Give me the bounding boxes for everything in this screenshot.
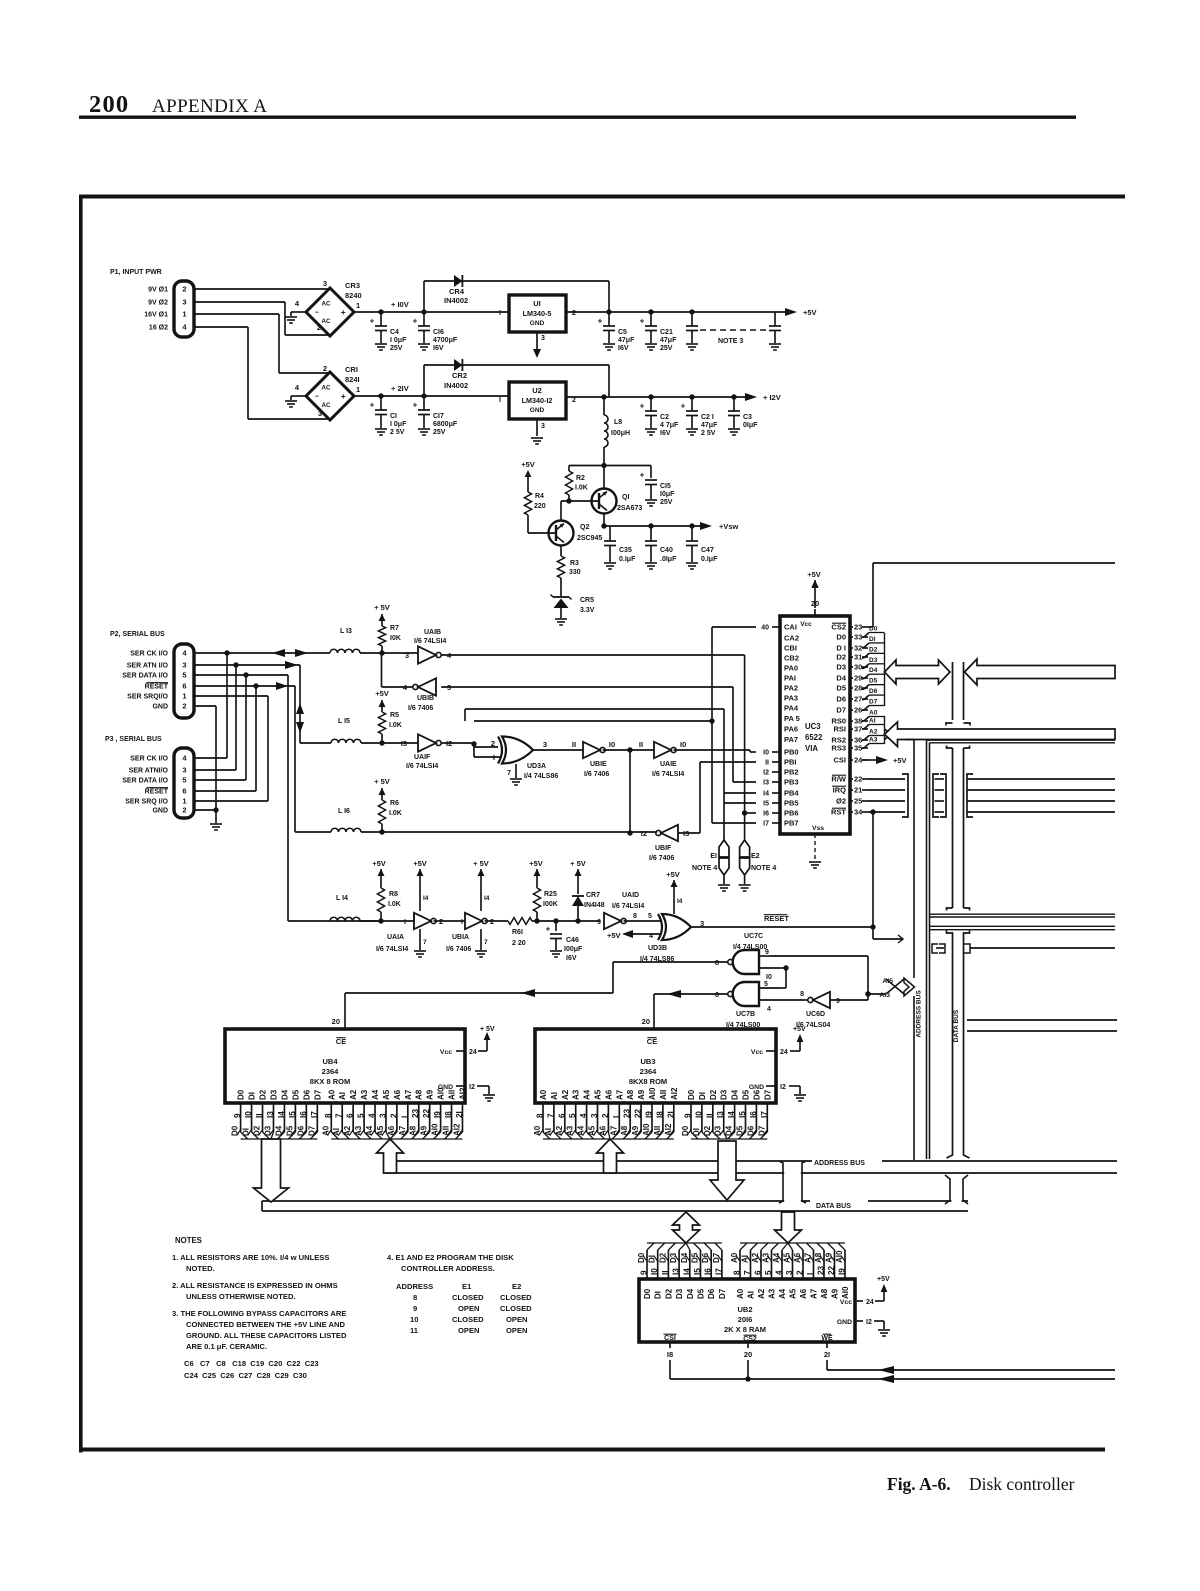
svg-text:IN4002: IN4002 (444, 296, 468, 305)
svg-text:Ø2: Ø2 (836, 797, 846, 806)
svg-text:NOTED.: NOTED. (186, 1264, 215, 1273)
svg-text:7: 7 (507, 770, 511, 777)
svg-text:AI2: AI2 (458, 1087, 467, 1100)
svg-text:29: 29 (854, 674, 862, 683)
svg-text:I4: I4 (677, 898, 683, 905)
svg-text:CLOSED: CLOSED (452, 1293, 484, 1302)
svg-text:UAIE: UAIE (660, 761, 677, 768)
svg-text:D2: D2 (869, 646, 878, 653)
svg-text:I4: I4 (277, 1111, 286, 1118)
svg-text:OPEN: OPEN (506, 1315, 528, 1324)
svg-text:+: + (341, 307, 346, 317)
svg-text:+5V: +5V (413, 859, 427, 868)
svg-text:16V Ø1: 16V Ø1 (144, 312, 168, 319)
svg-text:D7: D7 (869, 699, 878, 706)
svg-text:PA6: PA6 (784, 725, 798, 734)
svg-text:+5V: +5V (529, 859, 543, 868)
svg-text:I6V: I6V (433, 345, 444, 352)
svg-text:A0: A0 (869, 710, 878, 717)
svg-text:UNLESS OTHERWISE NOTED.: UNLESS OTHERWISE NOTED. (186, 1292, 296, 1301)
svg-text:20: 20 (332, 1017, 340, 1026)
svg-text:QI: QI (622, 494, 629, 501)
svg-text:1: 1 (356, 385, 360, 394)
svg-text:D2: D2 (709, 1089, 718, 1100)
svg-text:21: 21 (854, 786, 862, 795)
svg-text:R25: R25 (544, 891, 557, 898)
svg-text:23: 23 (854, 623, 862, 632)
svg-text:I4: I4 (423, 895, 429, 902)
svg-text:6522: 6522 (805, 733, 823, 742)
svg-text:UBIF: UBIF (655, 845, 672, 852)
svg-text:7: 7 (335, 1113, 344, 1118)
svg-text:OPEN: OPEN (458, 1304, 480, 1313)
svg-text:I2: I2 (641, 829, 647, 838)
svg-text:9: 9 (640, 1270, 649, 1275)
svg-text:25V: 25V (660, 345, 673, 352)
svg-text:I5: I5 (738, 1111, 747, 1118)
svg-text:CE: CE (647, 1037, 657, 1046)
svg-text:SER ATN I/O: SER ATN I/O (127, 663, 169, 670)
svg-text:I/4 74LS86: I/4 74LS86 (524, 773, 558, 780)
svg-text:7: 7 (546, 1113, 555, 1118)
svg-text:A2: A2 (757, 1288, 766, 1299)
svg-text:8: 8 (413, 1293, 417, 1302)
svg-text:0IμF: 0IμF (743, 422, 758, 429)
svg-text:SER CK I/O: SER CK I/O (130, 756, 168, 763)
svg-text:I: I (400, 1116, 409, 1118)
svg-text:DI: DI (248, 1092, 257, 1100)
svg-text:−: − (315, 310, 319, 317)
svg-text:27: 27 (854, 695, 862, 704)
svg-text:L I5: L I5 (338, 718, 350, 725)
svg-text:D4: D4 (869, 667, 878, 674)
svg-text:34: 34 (854, 808, 863, 817)
svg-text:Vcc: Vcc (840, 1299, 852, 1306)
svg-text:3. THE FOLLOWING BYPASS CAPAC: 3. THE FOLLOWING BYPASS CAPACITORS ARE (172, 1309, 346, 1318)
svg-text:2: 2 (389, 1113, 398, 1118)
svg-text:+: + (681, 402, 686, 411)
svg-text:AI: AI (869, 718, 876, 725)
svg-text:+: + (640, 471, 645, 480)
svg-text:D6: D6 (869, 688, 878, 695)
svg-text:UBIB: UBIB (417, 695, 434, 702)
svg-text:D0: D0 (836, 633, 846, 642)
svg-text:ADDRESS: ADDRESS (396, 1282, 433, 1291)
svg-text:UB3: UB3 (640, 1057, 655, 1066)
svg-text:I8: I8 (444, 1111, 453, 1118)
svg-text:+5V: +5V (793, 1026, 806, 1033)
svg-text:I9: I9 (433, 1111, 442, 1118)
svg-text:CI6: CI6 (433, 329, 444, 336)
svg-text:I6: I6 (299, 1111, 308, 1118)
svg-text:+: + (413, 317, 418, 326)
svg-text:DI: DI (698, 1092, 707, 1100)
svg-text:22: 22 (827, 1265, 836, 1275)
svg-text:4: 4 (767, 1006, 771, 1013)
svg-text:35: 35 (854, 744, 862, 753)
svg-text:SER SRQ I/O: SER SRQ I/O (125, 799, 168, 806)
svg-text:D3: D3 (269, 1089, 278, 1100)
svg-text:IN4I48: IN4I48 (584, 902, 605, 909)
svg-text:GROUND. ALL THESE CAPACITORS: GROUND. ALL THESE CAPACITORS LISTED (186, 1331, 347, 1340)
svg-text:CSI: CSI (664, 1335, 676, 1342)
svg-text:CR7: CR7 (586, 892, 600, 899)
svg-text:9: 9 (765, 949, 769, 956)
svg-text:D7: D7 (763, 1089, 772, 1100)
svg-text:D6: D6 (302, 1089, 311, 1100)
svg-text:D4: D4 (280, 1089, 289, 1100)
svg-text:I00K: I00K (543, 901, 558, 908)
svg-text:+: + (413, 401, 418, 410)
svg-text:PB3: PB3 (784, 778, 799, 787)
svg-text:NOTE 3: NOTE 3 (718, 338, 743, 345)
svg-text:AC: AC (322, 300, 331, 307)
svg-text:GND: GND (530, 320, 545, 327)
svg-text:UD3B: UD3B (648, 945, 667, 952)
svg-text:11: 11 (410, 1326, 419, 1335)
svg-text:+ 5V: + 5V (374, 777, 390, 786)
svg-text:I3: I3 (763, 780, 769, 787)
svg-text:+ I2V: + I2V (763, 393, 781, 402)
svg-text:A8: A8 (415, 1089, 424, 1100)
svg-text:4700μF: 4700μF (433, 337, 458, 344)
svg-text:I6: I6 (749, 1111, 758, 1118)
svg-text:D0: D0 (237, 1089, 246, 1100)
svg-text:+: + (640, 317, 645, 326)
svg-text:I6V: I6V (618, 345, 629, 352)
svg-text:GND: GND (152, 704, 168, 711)
svg-text:RESET: RESET (145, 789, 169, 796)
svg-text:I/6 74LSI4: I/6 74LSI4 (376, 946, 408, 953)
svg-text:2 20: 2 20 (512, 940, 526, 947)
svg-text:PB5: PB5 (784, 799, 799, 808)
svg-text:9: 9 (597, 919, 601, 926)
svg-text:33: 33 (854, 633, 862, 642)
svg-text:9: 9 (413, 1304, 417, 1313)
svg-text:AI: AI (741, 1255, 750, 1263)
svg-text:I: I (404, 919, 406, 926)
svg-text:+5V: +5V (666, 870, 680, 879)
svg-text:4: 4 (649, 933, 653, 940)
svg-text:25V: 25V (433, 429, 446, 436)
svg-text:II: II (765, 760, 769, 767)
svg-text:I00μH: I00μH (611, 430, 630, 437)
svg-text:SER SRQI/O: SER SRQI/O (127, 694, 168, 701)
svg-text:I/6 74LSI4: I/6 74LSI4 (612, 903, 644, 910)
svg-text:I0: I0 (680, 740, 686, 749)
svg-text:2: 2 (572, 397, 576, 404)
svg-text:Vcc: Vcc (800, 621, 812, 628)
svg-text:R5: R5 (390, 712, 399, 719)
svg-text:I4: I4 (484, 895, 490, 902)
svg-text:A3: A3 (572, 1089, 581, 1100)
svg-text:9: 9 (684, 1113, 693, 1118)
svg-text:I2: I2 (763, 770, 769, 777)
svg-text:CBI: CBI (784, 644, 797, 653)
svg-text:24: 24 (866, 1299, 874, 1306)
svg-text:RSI: RSI (833, 725, 846, 734)
svg-text:D0: D0 (681, 1125, 690, 1136)
svg-text:2SA673: 2SA673 (617, 505, 642, 512)
svg-text:824I: 824I (345, 375, 360, 384)
svg-text:I5: I5 (288, 1111, 297, 1118)
svg-text:5: 5 (357, 1113, 366, 1118)
svg-text:20: 20 (744, 1350, 752, 1359)
svg-text:D2: D2 (664, 1288, 673, 1299)
svg-text:6: 6 (754, 1270, 763, 1275)
svg-text:A7: A7 (404, 1089, 413, 1100)
svg-text:24: 24 (780, 1049, 788, 1056)
svg-text:I/6 74LSI4: I/6 74LSI4 (406, 763, 438, 770)
svg-text:C21: C21 (660, 329, 673, 336)
svg-text:20I6: 20I6 (738, 1315, 753, 1324)
svg-text:PA 5: PA 5 (784, 714, 800, 723)
svg-text:24: 24 (854, 756, 863, 765)
svg-text:E2: E2 (512, 1282, 521, 1291)
svg-text:II: II (639, 740, 643, 749)
svg-text:A3: A3 (768, 1288, 777, 1299)
svg-text:UI: UI (533, 299, 541, 308)
svg-text:RESET: RESET (764, 914, 789, 923)
svg-text:I/6 7406: I/6 7406 (446, 946, 471, 953)
svg-text:Q2: Q2 (580, 524, 589, 531)
svg-text:I2: I2 (469, 1084, 475, 1091)
svg-text:20: 20 (811, 599, 819, 608)
svg-text:4: 4 (775, 1270, 784, 1275)
svg-text:28: 28 (854, 684, 862, 693)
svg-text:+ 5V: + 5V (480, 1026, 495, 1033)
svg-text:+5V: +5V (893, 756, 907, 765)
svg-text:PA3: PA3 (784, 694, 798, 703)
svg-text:C2: C2 (660, 414, 669, 421)
svg-text:1. ALL RESISTORS ARE 10%. I/4: 1. ALL RESISTORS ARE 10%. I/4 w UNLESS (172, 1253, 329, 1262)
svg-text:C24 C25 C26 C27 C28 C29: C24 C25 C26 C27 C28 C29 C30 (184, 1371, 307, 1380)
svg-text:D6: D6 (836, 695, 846, 704)
svg-text:8KX8 ROM: 8KX8 ROM (629, 1077, 667, 1086)
svg-text:A3: A3 (360, 1089, 369, 1100)
svg-text:C47: C47 (701, 547, 714, 554)
svg-text:R7: R7 (390, 625, 399, 632)
svg-text:A0: A0 (327, 1089, 336, 1100)
svg-text:A8: A8 (820, 1288, 829, 1299)
svg-text:23: 23 (623, 1108, 632, 1118)
svg-text:3: 3 (590, 1113, 599, 1118)
svg-text:DATA BUS: DATA BUS (816, 1203, 851, 1210)
svg-text:D7: D7 (718, 1288, 727, 1299)
svg-text:UC6D: UC6D (806, 1011, 825, 1018)
svg-text:2364: 2364 (322, 1067, 340, 1076)
svg-text:2I: 2I (666, 1111, 675, 1118)
svg-text:I: I (806, 1273, 815, 1275)
svg-text:Fig. A-6.: Fig. A-6. (887, 1474, 951, 1494)
svg-text:30: 30 (854, 663, 862, 672)
svg-text:AI2: AI2 (670, 1087, 679, 1100)
svg-text:PA0: PA0 (784, 664, 798, 673)
svg-text:PB6: PB6 (784, 809, 799, 818)
svg-text:0.IμF: 0.IμF (619, 556, 636, 563)
svg-text:AI3: AI3 (879, 992, 890, 999)
svg-text:D6: D6 (752, 1089, 761, 1100)
svg-text:8240: 8240 (345, 291, 362, 300)
svg-text:26: 26 (854, 706, 862, 715)
svg-text:47μF: 47μF (660, 337, 677, 344)
svg-text:3: 3 (785, 1270, 794, 1275)
svg-text:U2: U2 (532, 386, 542, 395)
svg-text:GND: GND (152, 808, 168, 815)
svg-text:C2 I: C2 I (701, 414, 714, 421)
svg-text:9: 9 (836, 998, 840, 1005)
svg-text:330: 330 (569, 569, 581, 576)
svg-text:AI: AI (747, 1291, 756, 1299)
svg-text:D0: D0 (643, 1288, 652, 1299)
svg-text:UAIF: UAIF (414, 754, 431, 761)
svg-text:25: 25 (854, 797, 862, 806)
svg-text:IN4002: IN4002 (444, 381, 468, 390)
svg-text:6: 6 (182, 682, 186, 691)
svg-text:20: 20 (642, 1017, 650, 1026)
svg-text:23: 23 (817, 1265, 826, 1275)
svg-text:16 Ø2: 16 Ø2 (149, 325, 168, 332)
svg-text:I0: I0 (766, 974, 772, 981)
svg-text:CI5: CI5 (660, 483, 671, 490)
svg-text:SER DATA I/O: SER DATA I/O (122, 673, 168, 680)
svg-text:AI0: AI0 (648, 1087, 657, 1100)
svg-text:AII: AII (659, 1090, 668, 1100)
svg-text:AI: AI (550, 1092, 559, 1100)
svg-text:D3: D3 (720, 1089, 729, 1100)
svg-text:+5V: +5V (807, 570, 821, 579)
svg-text:23: 23 (411, 1108, 420, 1118)
svg-text:UAIB: UAIB (424, 629, 441, 636)
svg-text:I3: I3 (716, 1111, 725, 1118)
svg-text:A2: A2 (349, 1089, 358, 1100)
svg-text:I4: I4 (682, 1268, 691, 1275)
svg-text:24: 24 (469, 1049, 477, 1056)
svg-text:LM340-I2: LM340-I2 (522, 396, 553, 405)
svg-text:2: 2 (182, 285, 186, 294)
svg-text:I8: I8 (667, 1350, 673, 1359)
svg-text:CONTROLLER ADDRESS.: CONTROLLER ADDRESS. (401, 1264, 495, 1273)
svg-text:+Vsw: +Vsw (719, 522, 739, 531)
svg-text:A4: A4 (371, 1089, 380, 1100)
svg-text:2364: 2364 (640, 1067, 658, 1076)
svg-text:R2: R2 (576, 475, 585, 482)
svg-text:C5: C5 (618, 329, 627, 336)
svg-text:8: 8 (536, 1113, 545, 1118)
svg-text:2SC945: 2SC945 (577, 535, 602, 542)
svg-text:PA7: PA7 (784, 735, 798, 744)
svg-text:UBIE: UBIE (590, 761, 607, 768)
svg-text:C35: C35 (619, 547, 632, 554)
svg-text:AI0: AI0 (437, 1087, 446, 1100)
svg-text:D5: D5 (869, 678, 878, 685)
svg-text:I/6 7406: I/6 7406 (649, 855, 674, 862)
svg-text:+ 5V: + 5V (374, 603, 390, 612)
svg-text:.0IμF: .0IμF (660, 556, 677, 563)
svg-text:D3: D3 (836, 663, 846, 672)
svg-text:2: 2 (572, 310, 576, 317)
svg-text:2 5V: 2 5V (701, 430, 716, 437)
svg-text:3: 3 (405, 651, 409, 660)
svg-text:II: II (255, 1113, 264, 1118)
svg-text:L I4: L I4 (336, 895, 348, 902)
svg-text:I: I (499, 397, 501, 404)
svg-text:A8: A8 (626, 1089, 635, 1100)
svg-text:5: 5 (764, 981, 768, 988)
svg-text:8: 8 (733, 1270, 742, 1275)
svg-text:8: 8 (324, 1113, 333, 1118)
svg-text:1: 1 (182, 797, 186, 806)
svg-text:A4: A4 (583, 1089, 592, 1100)
svg-text:R8: R8 (389, 891, 398, 898)
svg-text:10: 10 (410, 1315, 418, 1324)
svg-text:CB2: CB2 (784, 654, 799, 663)
svg-text:CLOSED: CLOSED (500, 1293, 532, 1302)
svg-text:4 7μF: 4 7μF (660, 422, 679, 429)
svg-text:WE: WE (821, 1335, 833, 1342)
svg-text:UC3: UC3 (805, 722, 821, 731)
svg-text:I: I (499, 310, 501, 317)
svg-text:RST: RST (831, 808, 846, 817)
svg-text:UC7B: UC7B (736, 1011, 755, 1018)
svg-text:I/6 7406: I/6 7406 (408, 705, 433, 712)
svg-text:UAIA: UAIA (387, 934, 404, 941)
svg-text:47μF: 47μF (701, 422, 718, 429)
svg-text:22: 22 (854, 775, 862, 784)
svg-text:EI: EI (710, 853, 717, 860)
svg-text:+5V: +5V (375, 689, 389, 698)
svg-text:PB0: PB0 (784, 748, 799, 757)
svg-text:I7: I7 (760, 1111, 769, 1118)
svg-text:D0: D0 (231, 1125, 240, 1136)
svg-text:A5: A5 (594, 1089, 603, 1100)
svg-text:CR3: CR3 (345, 281, 360, 290)
svg-text:I8: I8 (655, 1111, 664, 1118)
svg-text:R3: R3 (570, 560, 579, 567)
svg-text:0.IμF: 0.IμF (701, 556, 718, 563)
svg-text:4. E1 AND E2 PROGRAM THE DISK: 4. E1 AND E2 PROGRAM THE DISK (387, 1253, 514, 1262)
svg-text:D5: D5 (697, 1288, 706, 1299)
svg-text:2I: 2I (824, 1350, 830, 1359)
svg-text:A9: A9 (831, 1288, 840, 1299)
svg-text:+5V: +5V (803, 308, 817, 317)
svg-text:+5V: +5V (877, 1276, 890, 1283)
svg-text:C46: C46 (566, 937, 579, 944)
svg-text:I.0K: I.0K (389, 722, 402, 729)
svg-text:CLOSED: CLOSED (452, 1315, 484, 1324)
svg-text:+: + (341, 391, 346, 401)
svg-text:D2: D2 (259, 1089, 268, 1100)
svg-text:8KX 8 ROM: 8KX 8 ROM (310, 1077, 350, 1086)
svg-text:A6: A6 (393, 1089, 402, 1100)
svg-text:UAID: UAID (622, 892, 639, 899)
svg-text:R6: R6 (390, 800, 399, 807)
svg-text:L I3: L I3 (340, 628, 352, 635)
svg-text:1: 1 (182, 692, 186, 701)
svg-text:I0: I0 (763, 750, 769, 757)
svg-text:+: + (546, 925, 551, 934)
svg-text:A2: A2 (561, 1089, 570, 1100)
svg-text:D4: D4 (836, 674, 846, 683)
svg-text:L I6: L I6 (338, 808, 350, 815)
svg-text:+: + (598, 317, 603, 326)
svg-text:I6: I6 (763, 811, 769, 818)
svg-text:APPENDIX A: APPENDIX A (152, 96, 267, 117)
svg-text:D I: D I (836, 644, 846, 653)
svg-text:200: 200 (89, 91, 129, 118)
svg-text:PBI: PBI (784, 758, 797, 767)
svg-text:I.0K: I.0K (389, 810, 402, 817)
